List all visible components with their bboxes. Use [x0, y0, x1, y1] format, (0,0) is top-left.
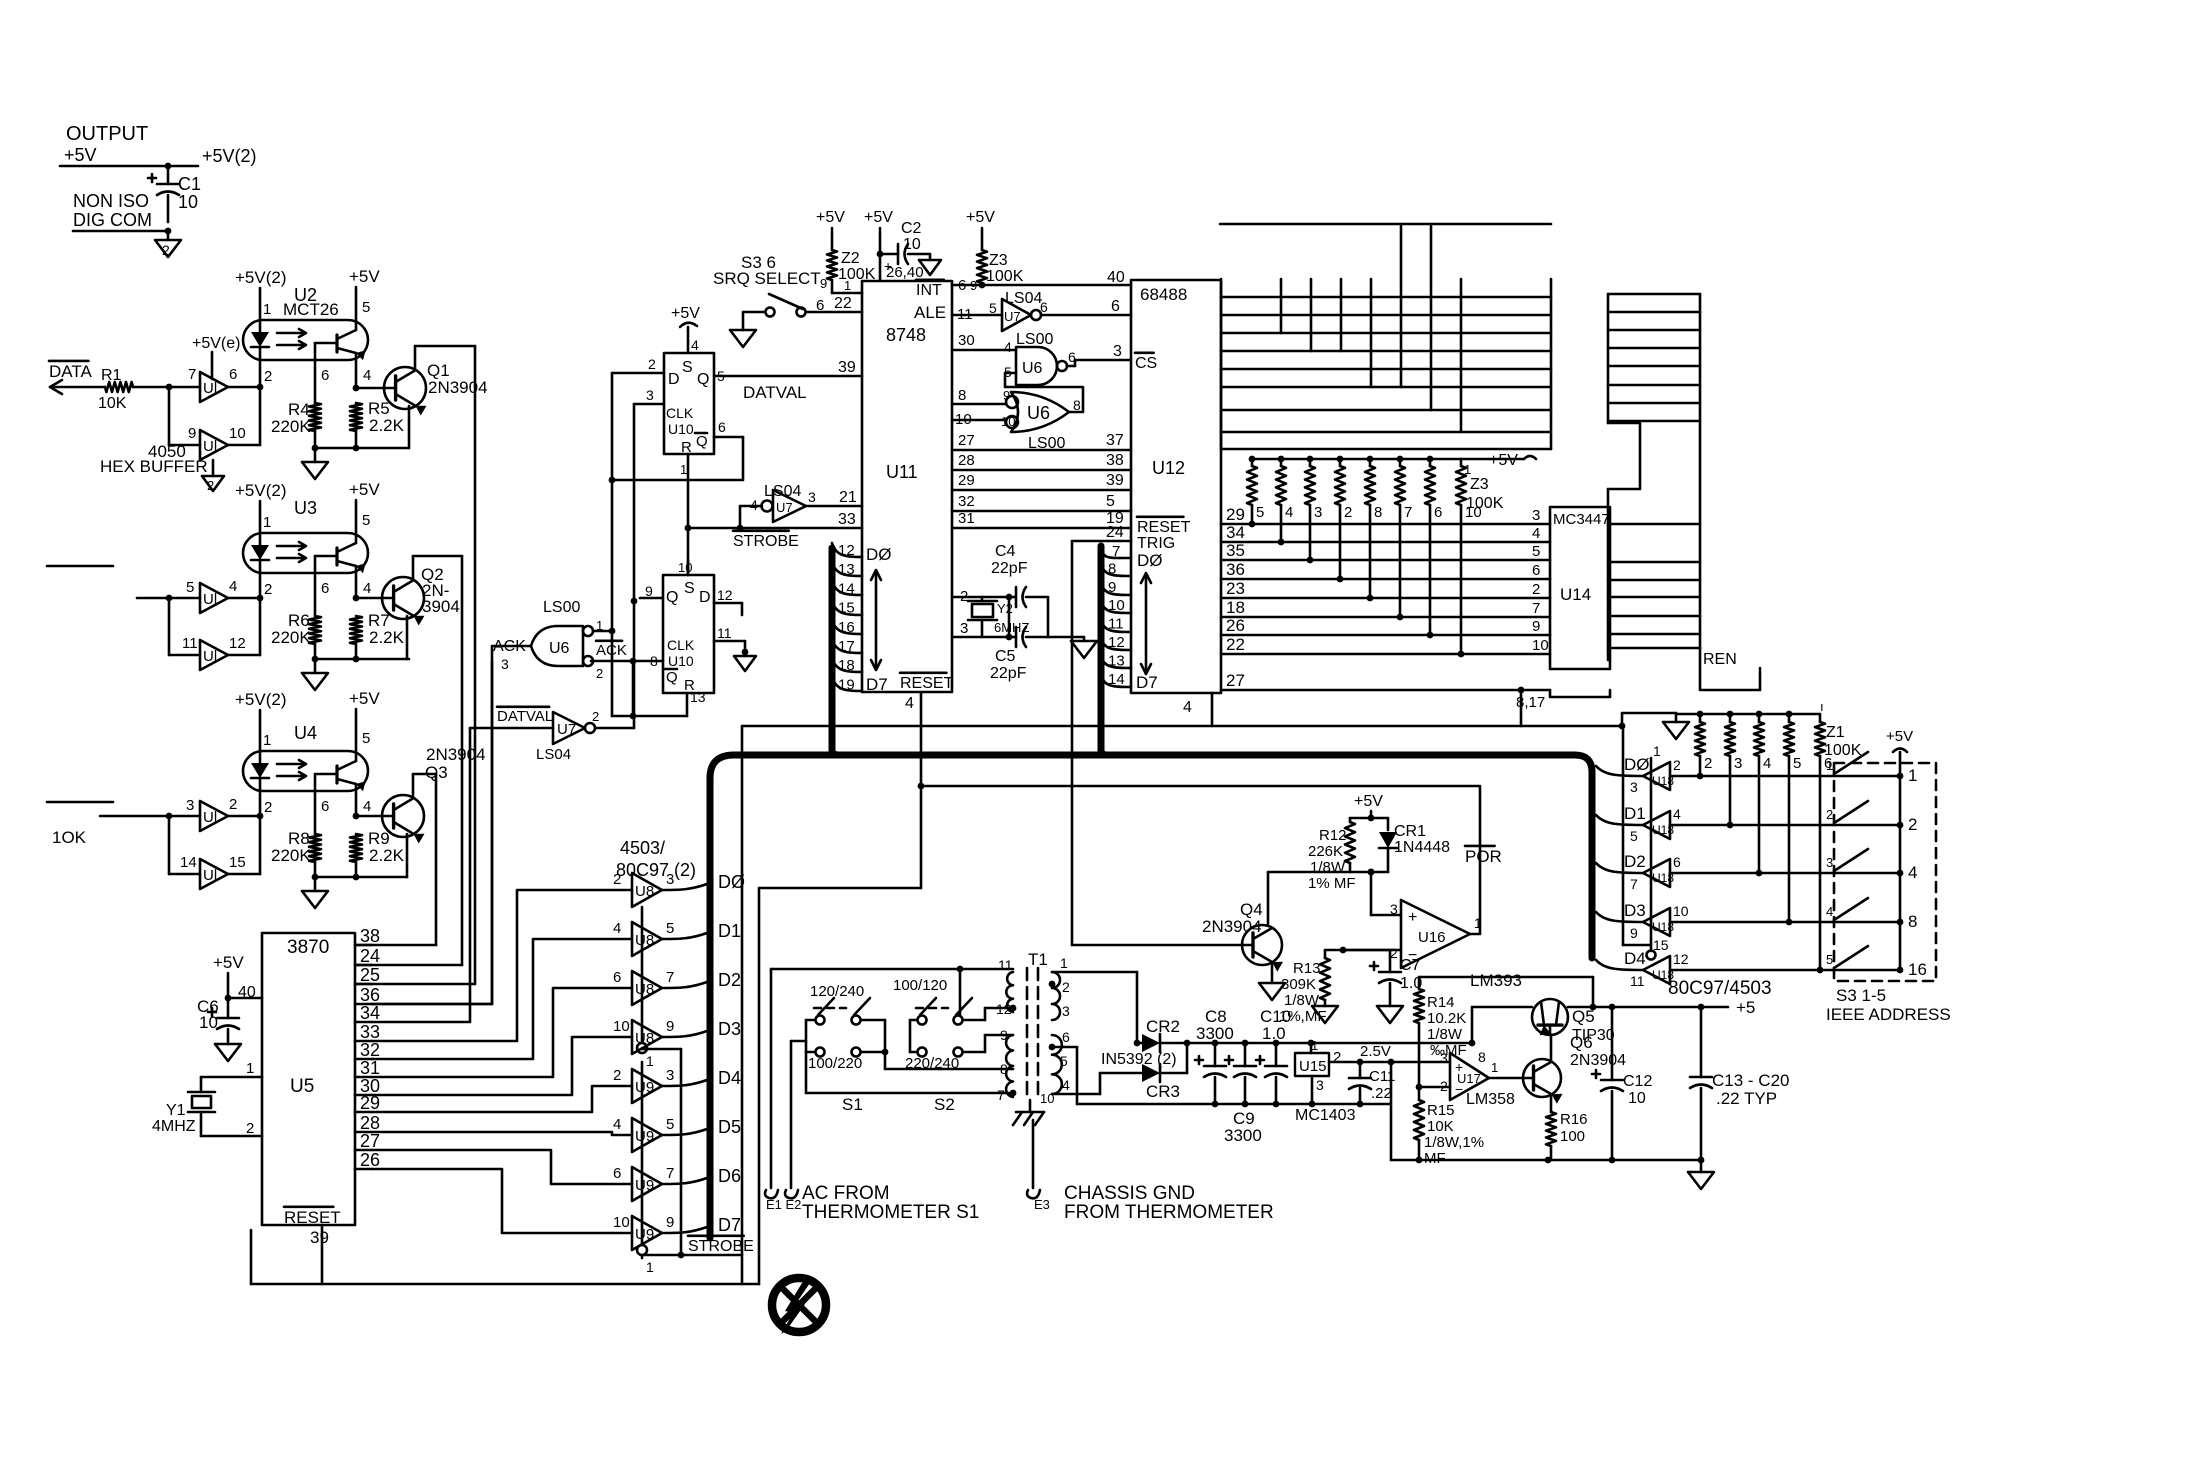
- pin 4 of U4: [353, 784, 372, 819]
- ground below SRQ switch: [730, 330, 756, 347]
- net +5V rail: [60, 145, 257, 169]
- transformer T1 core: [1027, 968, 1038, 1100]
- inverter U7a DATVAL-bar LS04: [470, 707, 634, 763]
- svg-text:1: 1: [1060, 955, 1068, 971]
- ground below C6: [215, 1029, 241, 1061]
- wire U11 pin 28 to U12 pin 38: [952, 452, 1131, 470]
- svg-text:4: 4: [613, 1116, 621, 1133]
- wire Q2 collector to rail: [413, 555, 462, 558]
- pin 38 of U5: [355, 926, 380, 946]
- svg-text:Ul: Ul: [203, 380, 217, 397]
- arrow D0-D7 inside U12: [1141, 573, 1151, 674]
- buffer U8 output DØ: [613, 871, 745, 907]
- svg-text:37: 37: [1106, 432, 1124, 449]
- svg-text:39: 39: [310, 1228, 329, 1247]
- svg-text:+5V: +5V: [816, 209, 845, 226]
- pin 12 of U10b: [714, 587, 742, 615]
- wire U16 minus input node: [1340, 947, 1401, 954]
- svg-text:34: 34: [1226, 523, 1245, 542]
- capacitor C5 22pF: [990, 627, 1048, 682]
- transistor Q6 2N3904: [1523, 1033, 1626, 1104]
- svg-text:U7: U7: [776, 500, 793, 515]
- label STROBE at buffers: [688, 1236, 754, 1255]
- svg-text:10: 10: [199, 1013, 218, 1032]
- pin 4 of U11 RESET: [905, 694, 921, 712]
- pin 4 of U3: [353, 566, 372, 601]
- svg-text:MF: MF: [1424, 1150, 1446, 1167]
- wire U10a D feedback loop: [609, 373, 743, 716]
- label 8,17: [1516, 694, 1545, 711]
- transistor Q3 2N3904: [356, 745, 486, 877]
- svg-text:27: 27: [360, 1131, 380, 1151]
- svg-text:Q: Q: [697, 371, 709, 388]
- pin 27 of U5: [355, 1131, 380, 1151]
- svg-text:D4: D4: [718, 1068, 741, 1088]
- svg-text:2: 2: [1908, 815, 1917, 834]
- label DATA with arrow: [49, 361, 105, 394]
- IC U15 MC1403: [1295, 1038, 1356, 1124]
- svg-text:6: 6: [1673, 854, 1681, 870]
- opto-coupler U3: [243, 498, 370, 573]
- pin 17 of U11 data bus: [832, 638, 862, 655]
- inverter U7b STROBE LS04: [750, 483, 816, 522]
- wire R12 CR1 bottom join: [1350, 869, 1388, 876]
- svg-text:+5V: +5V: [213, 953, 244, 972]
- svg-text:10K: 10K: [98, 395, 127, 412]
- svg-text:4: 4: [691, 337, 699, 353]
- arrow D0-D7 inside U11: [871, 570, 881, 670]
- svg-text:3: 3: [1734, 755, 1742, 772]
- svg-text:10: 10: [1673, 903, 1689, 919]
- svg-text:5: 5: [362, 512, 370, 529]
- svg-text:RESET: RESET: [284, 1208, 341, 1227]
- wire U16 output to POR: [921, 786, 1480, 934]
- svg-text:MC3447: MC3447: [1553, 511, 1610, 528]
- wire Q5 base from Q6 collector: [1550, 1035, 1553, 1061]
- wire 2.5V reference: [1329, 1043, 1450, 1065]
- enable bubble U9 pin 1: [637, 1245, 654, 1275]
- pin 30 of U11: [952, 332, 1016, 350]
- node OUTPUT label: [66, 123, 148, 145]
- thick bus vertical from U11: [832, 548, 838, 755]
- svg-text:35: 35: [1226, 541, 1245, 560]
- pin 9 of U10b: [640, 583, 663, 599]
- wire U5 pin 26 to buffer D input: [372, 1169, 632, 1233]
- svg-text:9: 9: [970, 278, 977, 293]
- crystal Y1 4MHZ: [152, 1060, 262, 1137]
- svg-text:6: 6: [1111, 298, 1120, 315]
- svg-text:+5V: +5V: [1489, 452, 1518, 469]
- svg-text:25: 25: [360, 965, 380, 985]
- buffer U18 D2: [1596, 852, 1681, 892]
- wire ground line to REN area: [1521, 690, 1625, 729]
- svg-text:4: 4: [1004, 339, 1012, 355]
- svg-text:10: 10: [229, 425, 246, 442]
- svg-text:CHASSIS GND: CHASSIS GND: [1064, 1183, 1195, 1204]
- wire bottom rail step right: [1391, 1157, 1704, 1164]
- svg-text:7: 7: [997, 1087, 1005, 1103]
- wire U17 out to Q6 base: [1489, 1077, 1524, 1080]
- resistor Z2 100K: [820, 250, 876, 293]
- wire bottom rail: [1077, 1101, 1391, 1108]
- ground at U10b pin 11: [734, 652, 756, 671]
- opto-coupler U4: [243, 723, 370, 791]
- svg-text:U9: U9: [635, 1226, 654, 1243]
- svg-text:C2: C2: [901, 220, 922, 237]
- transformer T1 primary upper: [996, 957, 1016, 1017]
- pin 7 of U12: [1101, 543, 1131, 560]
- wire ALE to U12 pin 6: [1041, 298, 1131, 315]
- svg-text:CR2: CR2: [1146, 1017, 1180, 1036]
- svg-text:10: 10: [678, 560, 692, 575]
- svg-text:1: 1: [263, 514, 271, 531]
- svg-text:2: 2: [1440, 1078, 1448, 1094]
- pin 8 of U12 data bus: [1101, 560, 1131, 577]
- wire REN bracket: [1700, 648, 1760, 690]
- svg-text:3: 3: [1314, 504, 1322, 521]
- label E3 CHASSIS GND FROM THERMOMETER: [1027, 1183, 1274, 1223]
- wire 10K input: [47, 802, 200, 847]
- resistor Z1 bank 4: [1754, 714, 1771, 876]
- svg-text:6: 6: [1532, 562, 1540, 579]
- pin 2 of U11 XTAL: [952, 588, 1012, 605]
- svg-text:15: 15: [1653, 937, 1669, 953]
- resistor Z3 100K: [970, 250, 1024, 293]
- svg-text:+5V: +5V: [349, 689, 380, 708]
- diode CR1 1N4448: [1371, 818, 1450, 872]
- pin 3 of U14: [1532, 507, 1540, 524]
- svg-text:Z2: Z2: [841, 250, 860, 267]
- pin 6 of U11 INT: [952, 269, 1131, 294]
- svg-text:D: D: [699, 589, 711, 606]
- wire left stub U3 input: [47, 566, 200, 601]
- wire E1 to S2: [959, 969, 962, 1015]
- svg-text:68488: 68488: [1140, 285, 1187, 304]
- svg-text:1: 1: [1826, 758, 1833, 773]
- dashed box S3: [1834, 763, 1936, 981]
- wire U1e to U1f: [169, 816, 200, 874]
- svg-text:1: 1: [263, 301, 271, 318]
- svg-text:D1: D1: [718, 921, 741, 941]
- wire U12 pin 36 row to U14: [1221, 560, 1550, 579]
- svg-text:2: 2: [613, 1067, 621, 1084]
- wire S2 right to T1 pin 12: [963, 1008, 1013, 1052]
- resistor R8 220K: [271, 829, 321, 880]
- svg-text:CR3: CR3: [1146, 1082, 1180, 1101]
- svg-text:+5V: +5V: [864, 209, 893, 226]
- node NON ISO DIG COM: [73, 191, 171, 234]
- wire D4 row to address switch: [1670, 969, 1900, 972]
- label 4503/80C97 (2): [616, 838, 696, 880]
- wire RESET riser: [759, 694, 921, 1284]
- svg-text:22pF: 22pF: [990, 665, 1027, 682]
- pin 33 of U11: [838, 511, 856, 528]
- wire Q1 collector to rail: [415, 345, 475, 348]
- switch S2: [893, 977, 972, 1114]
- svg-text:2: 2: [162, 242, 170, 258]
- svg-text:C5: C5: [995, 648, 1016, 665]
- svg-text:DATA: DATA: [49, 362, 92, 381]
- wire D2 row to address switch: [1670, 872, 1900, 875]
- svg-text:+5V: +5V: [1886, 728, 1913, 745]
- label E1 E2 AC FROM THERMOMETER S1: [765, 1183, 979, 1223]
- resistor Z1 bank 5: [1784, 714, 1801, 925]
- pin 33 of U5: [355, 1022, 380, 1042]
- svg-text:6: 6: [1040, 299, 1048, 315]
- svg-text:RESET: RESET: [1137, 519, 1191, 536]
- buffer U18 D4: [1596, 937, 1689, 989]
- svg-text:STROBE: STROBE: [733, 533, 799, 550]
- pin 3 of U11 XTAL: [952, 620, 1012, 640]
- pin 8 of U11: [952, 387, 1006, 404]
- wire U11 pin 29 to U12 pin 39: [952, 472, 1131, 490]
- svg-text:2: 2: [207, 478, 214, 493]
- svg-text:10: 10: [178, 192, 198, 212]
- net +5V at address switch: [1886, 728, 1913, 776]
- svg-text:U9: U9: [635, 1177, 654, 1194]
- svg-text:2: 2: [592, 709, 599, 724]
- label 26,40: [886, 264, 924, 281]
- crystal Y2 6MHZ: [968, 597, 1029, 637]
- wire grid top bus: [1220, 223, 1551, 226]
- svg-text:100/120: 100/120: [893, 977, 947, 994]
- svg-text:4: 4: [905, 695, 914, 712]
- pin 12 of U12 data bus: [1101, 634, 1131, 651]
- wire rail Q1 to U5 pin 25: [355, 346, 475, 984]
- ground right of C5: [1071, 637, 1097, 658]
- net +5V above U4: [349, 689, 380, 761]
- IC U12 68488: [1131, 280, 1221, 693]
- svg-text:C12: C12: [1623, 1073, 1652, 1090]
- svg-text:34: 34: [360, 1003, 380, 1023]
- svg-text:C4: C4: [995, 543, 1016, 560]
- ground below C13-C20: [1688, 1160, 1714, 1189]
- wire U18 enable chain: [1623, 726, 1651, 951]
- svg-text:6: 6: [229, 366, 237, 383]
- flip-flop U10a: [664, 353, 714, 456]
- svg-text:STROBE: STROBE: [688, 1238, 754, 1255]
- svg-text:2: 2: [1344, 504, 1352, 521]
- svg-text:2: 2: [648, 356, 656, 372]
- svg-text:3: 3: [1390, 901, 1398, 917]
- svg-text:9: 9: [188, 425, 196, 442]
- net rail above Z1 bank: [1676, 711, 1820, 718]
- pin 25 of U5: [355, 965, 380, 985]
- capacitor C8 3300: [1195, 1007, 1234, 1104]
- buffer U8 output D2: [613, 969, 741, 1005]
- ground below R6: [302, 659, 328, 690]
- svg-text:220K: 220K: [271, 417, 311, 436]
- label 80C97/4503: [1668, 978, 1772, 999]
- pin 5 of U10a DATVAL out: [714, 368, 862, 402]
- svg-text:U6: U6: [1027, 403, 1050, 423]
- no-static symbol: [772, 1278, 826, 1334]
- svg-text:LS04: LS04: [536, 746, 571, 763]
- label Z1 100K: [1820, 699, 1862, 759]
- wire 8,17 stub: [1550, 690, 1610, 697]
- svg-text:U8: U8: [635, 981, 654, 998]
- svg-text:28: 28: [360, 1113, 380, 1133]
- svg-text:DATVAL: DATVAL: [497, 708, 553, 725]
- svg-text:5: 5: [1060, 1053, 1068, 1069]
- svg-text:9: 9: [1532, 618, 1540, 635]
- svg-text:Ul: Ul: [203, 648, 217, 665]
- wire STROBE vertical to buffer bank: [642, 454, 688, 1258]
- svg-text:U3: U3: [294, 498, 317, 518]
- pin 18 of U11 data bus: [832, 657, 862, 674]
- wire U5 pin 28 to buffer D input: [372, 1132, 632, 1135]
- svg-text:R1: R1: [101, 367, 122, 384]
- resistor R6 220K: [271, 611, 321, 662]
- svg-text:3: 3: [666, 1067, 674, 1084]
- svg-text:D7: D7: [718, 1215, 741, 1235]
- svg-text:27: 27: [1226, 671, 1245, 690]
- pin 26 of U5: [355, 1150, 380, 1170]
- svg-text:LM393: LM393: [1470, 971, 1522, 990]
- svg-text:8: 8: [1478, 1049, 1486, 1065]
- svg-text:29: 29: [958, 472, 975, 489]
- svg-text:2: 2: [264, 368, 272, 385]
- svg-text:5: 5: [1532, 543, 1540, 560]
- wire U12 pin 27 row: [1221, 671, 1550, 693]
- svg-text:5: 5: [362, 299, 370, 316]
- svg-text:18: 18: [1226, 598, 1245, 617]
- svg-text:10: 10: [1532, 637, 1549, 654]
- wire U12 pin 22 row to U14: [1221, 635, 1550, 654]
- svg-text:10: 10: [1628, 1090, 1646, 1107]
- svg-text:3: 3: [1440, 1050, 1448, 1066]
- svg-text:7: 7: [666, 969, 674, 986]
- svg-text:D7: D7: [1136, 673, 1158, 692]
- pin 10 of U12 data bus: [1101, 597, 1131, 614]
- IC U14 MC3447: [1550, 507, 1610, 669]
- wire U12 pin 26 row to U14: [1221, 616, 1550, 635]
- transformer T1 secondary upper: [1049, 955, 1070, 1020]
- pin 4 of U12: [1183, 699, 1192, 716]
- resistor pull-up 2 of Z3 bank: [1247, 456, 1264, 528]
- pin 9 of U12 data bus: [1101, 579, 1131, 596]
- wire S1 right contacts: [861, 1020, 1013, 1069]
- svg-text:2N3904: 2N3904: [1570, 1052, 1626, 1069]
- resistor Z1 bank 3: [1725, 714, 1742, 828]
- wire U5 pin 31 to buffer D input: [372, 988, 632, 1077]
- svg-text:22: 22: [1226, 635, 1245, 654]
- svg-text:4: 4: [363, 798, 371, 815]
- pin 29 of U5: [355, 1093, 380, 1113]
- pin 10 of U14: [1532, 637, 1549, 654]
- svg-text:4503/: 4503/: [620, 838, 665, 858]
- svg-text:26: 26: [1226, 616, 1245, 635]
- wire U12 pin 34 row to U14: [1221, 523, 1550, 542]
- wire C4-C5 join: [1048, 597, 1084, 637]
- wire U1a to U1b input: [169, 387, 200, 445]
- svg-text:2: 2: [264, 581, 272, 598]
- svg-text:R16: R16: [1560, 1111, 1588, 1128]
- svg-text:U8: U8: [635, 932, 654, 949]
- wire T1 secondary pin4 to CR3: [1052, 1073, 1142, 1094]
- svg-text:8: 8: [1374, 504, 1382, 521]
- wire RESET net bottom rail: [251, 1230, 759, 1284]
- svg-text:4MHZ: 4MHZ: [152, 1118, 196, 1135]
- svg-text:33: 33: [838, 511, 856, 528]
- svg-text:+5V: +5V: [349, 480, 380, 499]
- svg-text:100: 100: [1560, 1128, 1585, 1145]
- net +5V(2) above U1a: [192, 335, 240, 379]
- wire U12 pin 23 row to U14: [1221, 579, 1550, 598]
- svg-text:1: 1: [1491, 1060, 1498, 1075]
- svg-text:Q: Q: [696, 433, 708, 450]
- svg-text:4: 4: [1062, 1077, 1070, 1093]
- svg-text:5: 5: [666, 920, 674, 937]
- flip-flop U10b: [663, 575, 714, 694]
- svg-text:6: 6: [718, 419, 726, 435]
- svg-text:2.2K: 2.2K: [369, 416, 405, 435]
- switch S3 1-5 IEEE ADDRESS: [1826, 752, 1927, 979]
- svg-text:2N3904: 2N3904: [428, 378, 488, 397]
- svg-text:4: 4: [613, 920, 621, 937]
- svg-text:S: S: [682, 359, 693, 376]
- diode CR3 1N5392: [1142, 1043, 1187, 1101]
- ground below U1b: [202, 460, 224, 493]
- gate U6b LS00 NAND: [1004, 331, 1076, 385]
- svg-text:+5V: +5V: [966, 209, 995, 226]
- label STROBE top: [733, 531, 799, 550]
- thick bus vertical right: [1589, 772, 1596, 958]
- svg-text:5: 5: [1793, 755, 1801, 772]
- svg-text:Z1: Z1: [1826, 724, 1845, 741]
- svg-text:309K: 309K: [1281, 976, 1316, 993]
- svg-text:D5: D5: [718, 1117, 741, 1137]
- gate U6c LS00 NOR: [1001, 388, 1081, 452]
- svg-text:S3 1-5: S3 1-5: [1836, 986, 1886, 1005]
- wire R6-R7 join: [315, 658, 409, 661]
- pin 28 of U5: [355, 1113, 380, 1133]
- wire R14 top to +5 rail: [1419, 977, 1596, 1010]
- svg-text:Z3: Z3: [989, 252, 1008, 269]
- svg-text:U6: U6: [1022, 360, 1043, 377]
- pin 24 of U5: [355, 946, 380, 966]
- wire unregulated rail: [1187, 1040, 1475, 1047]
- buffer U1b pins 9/10: [188, 425, 260, 460]
- pin 21 of U11: [839, 489, 857, 506]
- wire U11 pin 32 to U12 pin 5: [952, 493, 1131, 511]
- wire 2.5V to bottom step: [1390, 1062, 1393, 1160]
- resistor pull-up 9 of Z3 bank: [1456, 459, 1482, 657]
- pin 30 of U5: [355, 1076, 380, 1096]
- svg-text:21: 21: [839, 489, 857, 506]
- resistor pull-up 7 of Z3 bank: [1395, 456, 1412, 621]
- svg-text:7: 7: [1630, 876, 1638, 892]
- opto-coupler U2 MCT26: [243, 285, 370, 360]
- svg-text:6: 6: [1434, 504, 1442, 521]
- pin 6 of U14: [1532, 562, 1540, 579]
- wire STROBE inverter input: [737, 506, 762, 531]
- svg-text:15: 15: [229, 854, 246, 871]
- capacitor C2 10: [880, 220, 930, 274]
- svg-text:10.2K: 10.2K: [1427, 1010, 1466, 1027]
- resistor R1 10K: [98, 367, 200, 412]
- svg-text:R13: R13: [1293, 960, 1321, 977]
- diode CR2 1N5392: [1137, 1017, 1190, 1052]
- pin 2 of U2: [260, 360, 272, 445]
- svg-text:TIP30: TIP30: [1572, 1027, 1615, 1044]
- bus matrix grid: [1221, 224, 1551, 449]
- wire DØ row to address switch: [1670, 775, 1900, 778]
- pin 10 of U11: [952, 411, 1006, 428]
- svg-text:32: 32: [360, 1040, 380, 1060]
- svg-text:S2: S2: [934, 1095, 955, 1114]
- svg-text:100K: 100K: [1466, 495, 1504, 512]
